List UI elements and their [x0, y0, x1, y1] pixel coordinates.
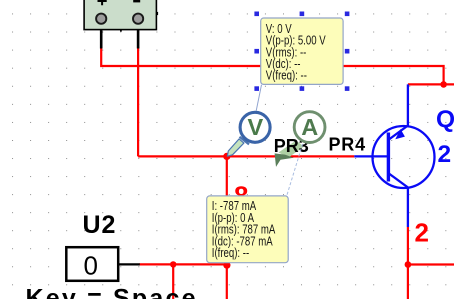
wire red vertical below main junction down to bottom edge [226, 156, 228, 299]
probe PR4 direction arrow pale face [279, 141, 305, 158]
battery V1 body [84, 0, 156, 30]
probe PR3 magnifier handle [227, 137, 249, 156]
battery V1 black lead from - pin [137, 23, 140, 49]
wire red from battery - terminal down to main horizontal wire [137, 47, 139, 156]
svg-text:Q: Q [436, 106, 454, 133]
svg-text:V: V [247, 114, 263, 140]
wire red bottom right horizontal to edge [408, 263, 454, 265]
transistor Q2 circle [373, 126, 435, 188]
battery V1 right edge tick [156, 12, 158, 15]
svg-text:2: 2 [438, 141, 452, 168]
probe PR3 voltage info box [261, 18, 343, 84]
node junction bottom right [405, 261, 412, 268]
battery V1 plus sign [98, 0, 107, 5]
transistor Q2 emitter lead to bottom [389, 174, 408, 228]
probe PR3 voltage probe circle [240, 112, 270, 142]
battery V1 minus sign [133, 0, 140, 2]
wire red from U2 junction down to bottom edge [172, 264, 174, 299]
switch U2 black stub to wire [118, 263, 140, 265]
wire red from transistor emitter down [407, 227, 409, 265]
battery V1 terminal pin + [96, 14, 106, 24]
battery V1 bottom tick [120, 29, 122, 31]
wire main horizontal red net 8 [138, 155, 354, 157]
wire red bottom right vertical to edge [407, 265, 409, 299]
probe PR4 direction arrow dark face [275, 153, 294, 167]
svg-text:I(freq): --: I(freq): -- [212, 247, 250, 261]
node junction on main wire [223, 153, 230, 160]
wire red from switch U2 to vertical wire [139, 263, 227, 265]
transistor Q2 arrow (PNP, pointing to base) [395, 129, 405, 139]
svg-text:PR4: PR4 [329, 135, 366, 155]
svg-text:U2: U2 [83, 211, 117, 239]
node junction on U2 wire [170, 261, 176, 267]
battery V1 terminal pin - [133, 14, 143, 24]
svg-text:Key = Space: Key = Space [26, 285, 198, 299]
switch U2 body [66, 247, 118, 281]
svg-text:0: 0 [84, 251, 98, 281]
node junction top right [440, 81, 447, 88]
wire red right branch at top junction to right edge [408, 83, 454, 85]
node junction where U2 wire meets vertical [223, 262, 230, 269]
probe PR4 current info box [207, 196, 289, 263]
transistor Q2 collector lead from top [389, 84, 408, 139]
selection handles of voltage info box [254, 12, 349, 91]
probe PR4 leader line to info box [287, 144, 303, 196]
svg-text:V(freq): --: V(freq): -- [266, 69, 307, 83]
battery V1 black lead from + pin [100, 23, 103, 49]
probe PR4 current probe circle [294, 112, 325, 143]
svg-text:A: A [301, 114, 318, 140]
transistor Q2 base bar [387, 133, 390, 182]
probe PR3 leader line to info box [256, 85, 261, 111]
wire red from battery + terminal to top-right corner [101, 47, 443, 84]
transistor Q2 base lead (blue) [354, 155, 388, 157]
svg-text:2: 2 [415, 218, 429, 248]
